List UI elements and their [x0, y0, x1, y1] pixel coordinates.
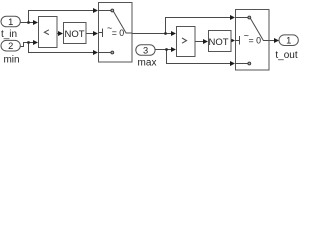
svg-text:min: min — [3, 55, 19, 66]
svg-text:t_in: t_in — [1, 29, 17, 40]
svg-text:2: 2 — [8, 41, 13, 51]
svg-text:= 0: = 0 — [249, 35, 262, 45]
svg-text:3: 3 — [143, 46, 148, 56]
svg-text:= 0: = 0 — [112, 28, 125, 38]
svg-text:max: max — [138, 58, 157, 69]
svg-text:1: 1 — [8, 17, 13, 27]
svg-text:1: 1 — [286, 36, 291, 46]
svg-text:NOT: NOT — [64, 29, 84, 40]
svg-text:NOT: NOT — [208, 37, 228, 48]
svg-text:t_out: t_out — [275, 50, 297, 61]
